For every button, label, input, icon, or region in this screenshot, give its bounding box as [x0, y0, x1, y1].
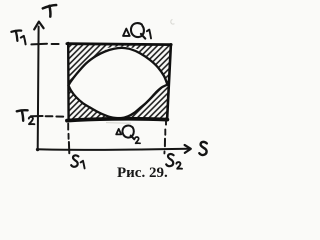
svg-text:Рис. 29.: Рис. 29. — [117, 165, 168, 181]
